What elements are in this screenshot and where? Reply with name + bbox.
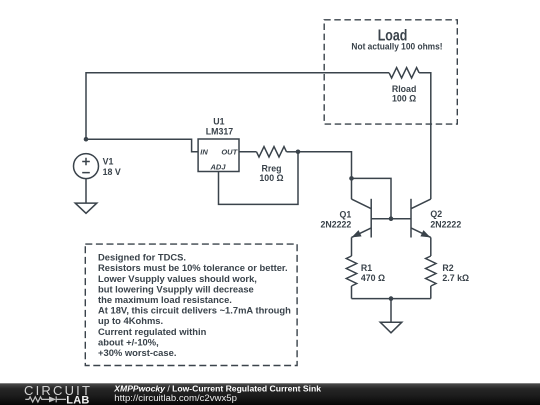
transistor Q2 bbox=[411, 199, 431, 238]
resistor R2 bbox=[426, 256, 436, 286]
svg-text:At 18V, this circuit delivers: At 18V, this circuit delivers ~1.7mA thr… bbox=[98, 305, 291, 316]
svg-text:100 Ω: 100 Ω bbox=[259, 173, 283, 183]
wire: supply top rail from node A up and right to Rload bbox=[86, 73, 389, 139]
wire: V1 to ground bbox=[85, 179, 87, 203]
svg-text:Not actually 100 ohms!: Not actually 100 ohms! bbox=[351, 41, 442, 51]
svg-text:Q2: Q2 bbox=[430, 209, 442, 219]
load enclosure dashed box bbox=[324, 20, 457, 124]
wire: collector feedback to base rail bbox=[352, 178, 392, 218]
wire: ground stub bbox=[390, 299, 392, 323]
wire: node B to Q1 collector bbox=[298, 152, 352, 199]
notes dashed box bbox=[85, 244, 297, 365]
wire: emitter bottom rail bbox=[352, 298, 431, 300]
wire: ADJ feedback loop bbox=[219, 152, 299, 205]
svg-text:OUT: OUT bbox=[221, 148, 238, 157]
wire: R1 to bottom rail bbox=[351, 286, 353, 299]
svg-text:470 Ω: 470 Ω bbox=[361, 273, 385, 283]
resistor Rreg bbox=[257, 147, 287, 157]
transistor Q1 bbox=[352, 199, 372, 238]
svg-text:Resistors must be 10% toleranc: Resistors must be 10% tolerance or bette… bbox=[98, 262, 288, 273]
svg-text:V1: V1 bbox=[103, 156, 114, 166]
wire: R2 to bottom rail bbox=[430, 286, 432, 299]
node: Q1 collector feedback junction dot bbox=[349, 176, 354, 181]
svg-text:18 V: 18 V bbox=[103, 167, 121, 177]
svg-text:+30% worst-case.: +30% worst-case. bbox=[98, 347, 176, 358]
CircuitLab logo resistor-diode doodle bbox=[25, 396, 66, 402]
svg-text:Lower Vsupply values should wo: Lower Vsupply values should work, bbox=[98, 273, 257, 284]
svg-text:ADJ: ADJ bbox=[209, 162, 226, 171]
wire: Q1 emitter to R1 bbox=[351, 237, 353, 256]
voltage source V1 bbox=[74, 154, 99, 179]
svg-text:2N2222: 2N2222 bbox=[430, 219, 461, 229]
wire: U1 OUT to Rreg bbox=[239, 151, 257, 153]
node B: Rreg/ADJ junction dot bbox=[296, 150, 301, 155]
node: bottom rail ground junction dot bbox=[389, 296, 394, 301]
wire: Rload to Q2 collector bbox=[419, 73, 431, 199]
IC U1 LM317 body bbox=[198, 139, 239, 172]
svg-text:Current regulated within: Current regulated within bbox=[98, 326, 207, 337]
svg-text:IN: IN bbox=[200, 148, 208, 157]
node: base rail junction dot bbox=[389, 216, 394, 221]
svg-text:XMPPwocky / Low-Current Regula: XMPPwocky / Low-Current Regulated Curren… bbox=[113, 383, 321, 393]
wire: Rreg to node B bbox=[287, 151, 299, 153]
svg-text:2N2222: 2N2222 bbox=[320, 219, 351, 229]
svg-text:LM317: LM317 bbox=[206, 127, 233, 137]
ground symbol below emitter rail bbox=[380, 322, 402, 333]
wire: base rail Q1 to Q2 bbox=[371, 218, 411, 220]
svg-text:2.7 kΩ: 2.7 kΩ bbox=[442, 273, 469, 283]
svg-text:the maximum load resistance.: the maximum load resistance. bbox=[98, 294, 232, 305]
svg-text:U1: U1 bbox=[213, 117, 224, 127]
ground symbol below V1 bbox=[75, 203, 97, 213]
resistor Rload bbox=[389, 68, 419, 78]
wire: Q2 emitter to R2 bbox=[430, 237, 432, 256]
svg-text:about +/-10%,: about +/-10%, bbox=[98, 336, 159, 347]
svg-text:R2: R2 bbox=[442, 263, 453, 273]
svg-text:100 Ω: 100 Ω bbox=[392, 94, 416, 104]
svg-text:http://circuitlab.com/c2vwx5p: http://circuitlab.com/c2vwx5p bbox=[114, 393, 237, 404]
svg-text:Designed for TDCS.: Designed for TDCS. bbox=[98, 252, 186, 263]
svg-text:up to 4Kohms.: up to 4Kohms. bbox=[98, 315, 163, 326]
node A: V1 positive junction dot bbox=[84, 137, 89, 142]
svg-text:R1: R1 bbox=[361, 263, 372, 273]
svg-text:but lowering Vsupply will decr: but lowering Vsupply will decrease bbox=[98, 283, 254, 294]
svg-text:Q1: Q1 bbox=[340, 209, 352, 219]
resistor R1 bbox=[346, 256, 356, 286]
wire: node A to U1 IN pin bbox=[86, 139, 198, 152]
svg-text:LAB: LAB bbox=[66, 395, 89, 405]
